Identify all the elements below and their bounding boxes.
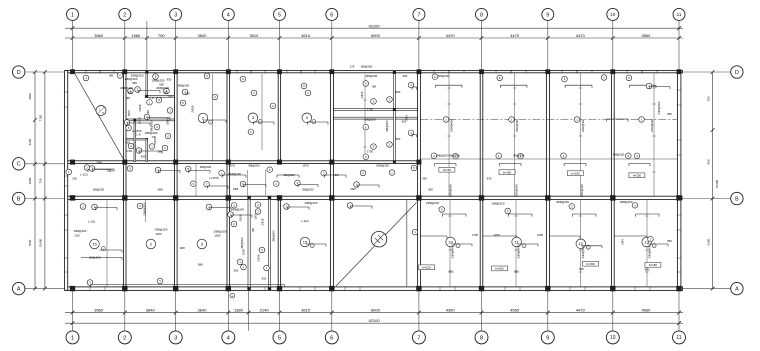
- svg-text:1570: 1570: [302, 164, 309, 168]
- svg-text:B: B: [17, 196, 21, 202]
- svg-text:4470: 4470: [576, 308, 586, 313]
- svg-text:4470: 4470: [510, 33, 520, 38]
- svg-text:2Φ8: 2Φ8: [96, 161, 102, 165]
- svg-text:6: 6: [330, 12, 333, 18]
- svg-text:1250: 1250: [537, 233, 544, 237]
- svg-text:42100: 42100: [368, 318, 380, 323]
- svg-text:1920: 1920: [214, 234, 221, 238]
- svg-text:2Φ4@400: 2Φ4@400: [581, 119, 585, 132]
- svg-text:1Φ8: 1Φ8: [197, 263, 203, 267]
- svg-text:1750: 1750: [367, 108, 374, 112]
- svg-text:Φ8: Φ8: [372, 85, 376, 89]
- svg-text:1/8: 1/8: [152, 135, 156, 139]
- svg-text:A: A: [735, 287, 739, 293]
- svg-text:Φ8@200: Φ8@200: [302, 188, 314, 192]
- svg-text:3610: 3610: [301, 33, 311, 38]
- svg-text:1380: 1380: [234, 308, 244, 313]
- svg-text:Φ8@200: Φ8@200: [366, 74, 378, 78]
- svg-text:2Φ18: 2Φ18: [360, 91, 364, 98]
- svg-text:2Φ8@200: 2Φ8@200: [305, 201, 318, 205]
- svg-text:2Φ14: 2Φ14: [166, 118, 170, 125]
- svg-text:Φ8@200: Φ8@200: [248, 164, 260, 168]
- svg-text:950: 950: [396, 90, 401, 94]
- svg-text:950: 950: [159, 83, 164, 87]
- svg-text:h=90: h=90: [126, 149, 133, 153]
- svg-text:2Φ8@200: 2Φ8@200: [120, 86, 133, 90]
- svg-text:L-8: L-8: [149, 96, 153, 100]
- svg-text:D: D: [17, 70, 21, 76]
- svg-text:15: 15: [303, 239, 308, 244]
- svg-text:15400: 15400: [715, 179, 719, 188]
- svg-text:Φ8: Φ8: [146, 110, 150, 114]
- svg-text:b=150: b=150: [633, 174, 642, 178]
- svg-text:2Φ8: 2Φ8: [233, 187, 239, 191]
- svg-text:2Φ4@400: 2Φ4@400: [449, 184, 453, 197]
- svg-text:930: 930: [422, 177, 427, 181]
- svg-text:950: 950: [396, 137, 401, 141]
- svg-text:Φ8@200: Φ8@200: [272, 230, 276, 242]
- svg-text:2Φ4@400: 2Φ4@400: [515, 184, 519, 197]
- svg-text:2Φ8@200: 2Φ8@200: [556, 200, 569, 204]
- svg-text:3300: 3300: [28, 138, 32, 145]
- svg-text:12: 12: [579, 241, 584, 246]
- svg-text:Φ8@200: Φ8@200: [385, 120, 389, 132]
- svg-text:1750: 1750: [472, 233, 479, 237]
- svg-text:3: 3: [174, 336, 177, 342]
- svg-text:Φ8@200: Φ8@200: [513, 153, 525, 157]
- svg-text:Φ8@200: Φ8@200: [364, 118, 376, 122]
- svg-text:Φ8: Φ8: [335, 173, 339, 177]
- svg-text:8: 8: [480, 12, 483, 18]
- svg-text:750: 750: [707, 96, 711, 101]
- svg-text:Φ8@200: Φ8@200: [613, 153, 625, 157]
- svg-text:1250: 1250: [493, 233, 500, 237]
- svg-text:Φ8@200: Φ8@200: [283, 173, 295, 177]
- svg-text:2Φ18: 2Φ18: [138, 104, 142, 111]
- svg-text:2Φ8@200: 2Φ8@200: [620, 200, 633, 204]
- svg-text:4560: 4560: [641, 308, 651, 313]
- svg-text:A: A: [17, 287, 21, 293]
- svg-text:b=150: b=150: [649, 263, 658, 267]
- svg-text:b=150: b=150: [443, 168, 452, 172]
- svg-text:950: 950: [449, 270, 454, 274]
- svg-text:950: 950: [168, 95, 173, 99]
- svg-text:3640: 3640: [146, 308, 156, 313]
- svg-text:950: 950: [645, 268, 650, 272]
- svg-text:7: 7: [417, 336, 420, 342]
- svg-text:Φ8@200: Φ8@200: [200, 165, 212, 169]
- svg-text:4560: 4560: [510, 308, 520, 313]
- svg-text:2Φ4@400: 2Φ4@400: [580, 184, 584, 197]
- svg-text:15400: 15400: [39, 238, 43, 247]
- svg-text:b=150: b=150: [503, 171, 512, 175]
- svg-text:L-1(2): L-1(2): [301, 219, 309, 223]
- svg-text:2Φ4@400: 2Φ4@400: [657, 101, 661, 114]
- svg-text:15: 15: [92, 241, 97, 246]
- svg-text:2800: 2800: [28, 177, 32, 184]
- svg-text:Φ8@200: Φ8@200: [361, 65, 373, 69]
- svg-text:1560: 1560: [131, 33, 141, 38]
- svg-text:2Φ4@400: 2Φ4@400: [648, 245, 652, 258]
- svg-text:b=120: b=120: [423, 266, 432, 270]
- svg-text:3640: 3640: [198, 33, 208, 38]
- svg-text:B: B: [735, 196, 739, 202]
- svg-text:7500: 7500: [28, 239, 32, 246]
- svg-text:9: 9: [546, 12, 549, 18]
- svg-text:6: 6: [330, 336, 333, 342]
- svg-text:950: 950: [141, 155, 146, 159]
- svg-text:5: 5: [278, 336, 281, 342]
- svg-text:2: 2: [123, 336, 126, 342]
- svg-text:950: 950: [132, 81, 137, 85]
- svg-text:b=150: b=150: [496, 267, 505, 271]
- svg-text:2140: 2140: [260, 308, 270, 313]
- svg-text:10: 10: [448, 239, 453, 244]
- svg-text:3800: 3800: [28, 93, 32, 100]
- svg-text:950: 950: [514, 270, 519, 274]
- svg-text:3610: 3610: [301, 308, 311, 313]
- svg-text:950: 950: [667, 112, 672, 116]
- svg-text:2Φ4@400: 2Φ4@400: [517, 245, 521, 258]
- svg-text:1750: 1750: [367, 150, 374, 154]
- svg-text:1920: 1920: [155, 232, 162, 236]
- svg-text:7100: 7100: [39, 114, 43, 121]
- svg-text:150: 150: [72, 177, 77, 181]
- svg-text:2Φ8@200: 2Φ8@200: [142, 202, 146, 215]
- svg-text:2Φ18: 2Φ18: [261, 218, 265, 225]
- svg-text:950: 950: [402, 120, 407, 124]
- svg-text:2Φ8@200: 2Φ8@200: [426, 201, 439, 205]
- svg-text:Φ8: Φ8: [126, 96, 130, 100]
- svg-text:10: 10: [610, 12, 616, 17]
- svg-text:8: 8: [480, 336, 483, 342]
- svg-text:11: 11: [677, 12, 682, 17]
- svg-text:2Φ8: 2Φ8: [157, 188, 163, 192]
- svg-text:4300: 4300: [446, 308, 456, 313]
- svg-text:1500: 1500: [127, 110, 131, 117]
- svg-text:3640: 3640: [198, 308, 208, 313]
- svg-text:950: 950: [262, 277, 267, 281]
- svg-text:4470: 4470: [446, 33, 456, 38]
- svg-text:L-1(2): L-1(2): [88, 220, 96, 224]
- svg-text:4: 4: [227, 12, 230, 18]
- svg-text:2Φ8@200: 2Φ8@200: [376, 164, 389, 168]
- svg-text:2Φ4@400: 2Φ4@400: [450, 119, 454, 132]
- svg-text:950: 950: [128, 91, 133, 95]
- svg-text:9: 9: [546, 336, 549, 342]
- svg-text:750: 750: [39, 178, 43, 183]
- svg-text:5: 5: [278, 12, 281, 18]
- svg-text:Φ8@200: Φ8@200: [438, 74, 450, 78]
- svg-text:L-8: L-8: [136, 133, 140, 137]
- svg-text:6000: 6000: [371, 33, 381, 38]
- svg-text:2Φ18: 2Φ18: [191, 105, 195, 112]
- svg-text:950: 950: [707, 159, 711, 164]
- svg-text:2Φ4@400: 2Φ4@400: [451, 245, 455, 258]
- svg-text:Φ8@200: Φ8@200: [449, 153, 461, 157]
- svg-text:Φ8@200: Φ8@200: [178, 84, 190, 88]
- svg-text:b=150: b=150: [571, 172, 580, 176]
- svg-text:Φ8@200: Φ8@200: [436, 153, 448, 157]
- svg-text:950: 950: [403, 74, 408, 78]
- svg-text:L-1(2): L-1(2): [80, 173, 88, 177]
- svg-text:1Φ8: 1Φ8: [179, 246, 185, 250]
- svg-text:10: 10: [610, 335, 616, 341]
- svg-text:950: 950: [428, 188, 433, 192]
- svg-text:Φ8: Φ8: [251, 228, 255, 232]
- svg-text:2Φ4@400: 2Φ4@400: [581, 245, 585, 258]
- svg-text:175: 175: [350, 65, 355, 69]
- svg-text:2: 2: [123, 12, 126, 18]
- svg-text:Φ8@200: Φ8@200: [93, 188, 105, 192]
- svg-text:9100: 9100: [707, 238, 711, 245]
- svg-text:2Φ8@200: 2Φ8@200: [492, 202, 505, 206]
- svg-text:L=1570: L=1570: [209, 176, 219, 180]
- svg-text:4470: 4470: [576, 33, 586, 38]
- svg-text:1/20: 1/20: [74, 234, 80, 238]
- svg-text:3560: 3560: [94, 308, 104, 313]
- svg-text:950: 950: [167, 78, 172, 82]
- svg-text:1570: 1570: [229, 164, 236, 168]
- svg-text:950: 950: [234, 269, 239, 273]
- svg-text:950: 950: [667, 239, 672, 243]
- svg-text:3560: 3560: [94, 33, 104, 38]
- svg-text:6000: 6000: [371, 308, 381, 313]
- svg-text:3: 3: [174, 12, 177, 18]
- svg-text:D: D: [735, 70, 739, 76]
- svg-text:2Φ18: 2Φ18: [257, 254, 261, 261]
- svg-text:b=150: b=150: [586, 262, 595, 266]
- svg-text:700: 700: [158, 33, 165, 38]
- svg-text:2Φ4@400: 2Φ4@400: [650, 119, 654, 132]
- svg-text:42100: 42100: [368, 23, 380, 28]
- svg-text:4560: 4560: [641, 33, 651, 38]
- svg-text:3510: 3510: [249, 33, 259, 38]
- svg-text:Φ8: Φ8: [109, 74, 113, 78]
- svg-text:930: 930: [487, 177, 492, 181]
- svg-text:2Φ8: 2Φ8: [350, 187, 356, 191]
- svg-text:2Φ4@400: 2Φ4@400: [515, 119, 519, 132]
- svg-text:1: 1: [71, 12, 74, 18]
- svg-text:11: 11: [676, 335, 681, 341]
- svg-text:2Φ8@200: 2Φ8@200: [156, 86, 169, 90]
- svg-text:950: 950: [185, 92, 190, 96]
- svg-text:2Φ4: 2Φ4: [621, 239, 625, 245]
- svg-text:2Φ8@200: 2Φ8@200: [231, 208, 244, 212]
- svg-text:1: 1: [71, 336, 74, 342]
- svg-text:7: 7: [417, 12, 420, 18]
- svg-text:950: 950: [125, 141, 130, 145]
- svg-text:Φ8@200: Φ8@200: [89, 255, 101, 259]
- svg-text:Φ8@200: Φ8@200: [240, 237, 244, 249]
- svg-text:C: C: [17, 162, 21, 168]
- svg-text:2Φ8@200: 2Φ8@200: [228, 172, 241, 176]
- svg-text:950: 950: [579, 267, 584, 271]
